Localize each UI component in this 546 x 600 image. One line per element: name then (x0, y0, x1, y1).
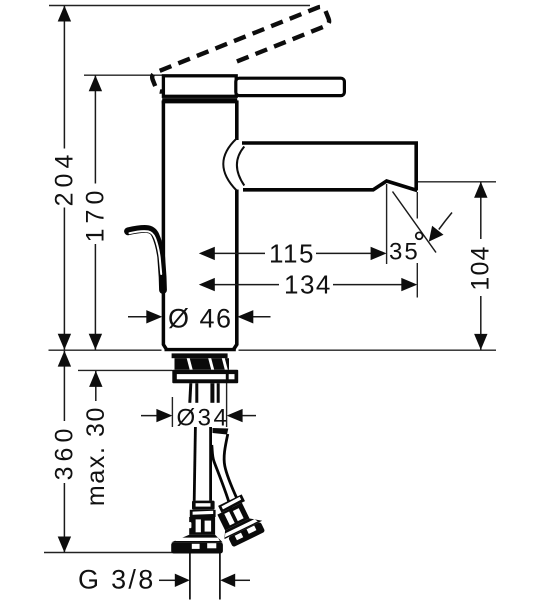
extension line: hose end (360) (44, 552, 185, 554)
dia46 (146, 310, 162, 323)
extension line: top of open lever (204) (49, 5, 310, 7)
204 up / down (58, 6, 71, 22)
115 left / right (199, 247, 215, 260)
extension line: hole dia 34 left (171, 397, 173, 427)
tailpiece strokes below flange (190, 383, 218, 403)
dim line 104 (480, 182, 482, 239)
35deg leader shaft (439, 213, 452, 230)
svg-text:35: 35 (389, 239, 420, 266)
extension line: spout tip (134) upper (416, 192, 418, 219)
handle lever rod (236, 78, 345, 95)
thread band (175, 358, 230, 370)
dim line 115 (214, 252, 266, 254)
104 up / down (474, 182, 487, 198)
spout outline (242, 143, 417, 191)
body top edge (162, 100, 238, 103)
extension line: body centre (115/134) (198, 237, 200, 298)
35deg angle line (393, 192, 437, 253)
svg-text:134: 134 (284, 270, 332, 300)
svg-text:Ø34: Ø34 (177, 405, 230, 432)
svg-text:360: 360 (51, 424, 79, 481)
extension line: handle top (170) (84, 74, 163, 76)
svg-text:Ø 46: Ø 46 (168, 304, 233, 334)
sleeve bottom ring (162, 98, 237, 100)
extension line: countertop deck right (239, 349, 497, 351)
max30 up (89, 371, 102, 387)
dim line 204 (63, 6, 65, 149)
svg-text:G 3/8: G 3/8 (78, 565, 156, 595)
body bottom edge (165, 348, 236, 351)
body left edge (163, 101, 166, 350)
supply pipes below (189, 554, 191, 600)
extension line: aerator level (104) (401, 181, 496, 183)
dia34 (156, 409, 172, 422)
spout fillet outer arc (223, 139, 236, 191)
body right edge lower (234, 190, 237, 350)
base neck (172, 353, 228, 358)
extension line: aerator axis (115) (386, 184, 388, 264)
body fill (162, 101, 238, 350)
straight hose tube (194, 427, 195, 501)
handle sleeve (163, 76, 236, 97)
svg-text:170: 170 (82, 186, 110, 243)
360 up / down (58, 351, 71, 367)
extension line: hole dia 34 right (226, 383, 228, 427)
dim line max30 (95, 371, 97, 401)
svg-text:204: 204 (51, 150, 79, 207)
svg-text:115: 115 (269, 239, 315, 269)
extension line: flange underside (max 30) (78, 369, 173, 371)
G38 (175, 574, 190, 587)
angled hose tube (213, 428, 229, 435)
open lever (dashed) (151, 5, 331, 93)
dim line 134 (214, 284, 280, 286)
mounting flange (172, 370, 238, 384)
pop-up rod (128, 229, 163, 290)
dim line dia34 (141, 415, 158, 417)
dim line 360 (63, 351, 65, 421)
extension line: countertop deck left (49, 349, 162, 351)
svg-text:max. 30: max. 30 (82, 406, 110, 506)
straight hose connector (171, 501, 223, 554)
dim line G38 (159, 579, 175, 581)
134 left / right (199, 278, 215, 291)
angled hose connector (210, 491, 267, 549)
body right edge upper (235, 101, 239, 141)
35deg leader arrow (429, 226, 444, 242)
arrowheads (58, 6, 488, 588)
degree symbol of 35 (416, 232, 423, 239)
extension line: spout tip (134) lower (416, 263, 418, 298)
svg-text:104: 104 (467, 245, 495, 290)
dim line 170 (94, 75, 96, 183)
spout fillet inner arc (237, 147, 244, 186)
170 up / down (89, 75, 102, 91)
dim line dia46 (128, 316, 148, 318)
spout fill (240, 143, 416, 190)
